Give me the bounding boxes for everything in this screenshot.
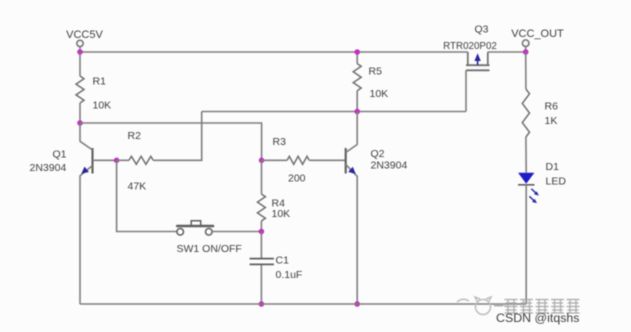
wire Q1 emitter down to bottom rail [79, 176, 81, 305]
node SW1/R4/C1 junction [259, 229, 265, 235]
svg-text:C1: C1 [276, 255, 290, 267]
svg-text:2N3904: 2N3904 [30, 162, 67, 174]
resistor R6 [522, 52, 558, 173]
svg-text:R3: R3 [273, 136, 287, 148]
svg-text:RTR020P02: RTR020P02 [443, 41, 497, 52]
svg-text:VCC5V: VCC5V [66, 29, 103, 41]
watermark logo [457, 297, 506, 315]
svg-text:LED: LED [546, 176, 567, 188]
wire Q3 gate lead [465, 70, 467, 111]
wire Q2 collector up to mid rail [356, 112, 358, 145]
wire Q2 emitter down to bottom rail [356, 176, 358, 304]
mosfet Q3 [443, 23, 497, 70]
node Q2 emitter junction on bottom rail [354, 301, 360, 307]
svg-text:R2: R2 [128, 130, 142, 142]
node VCC5V junction [77, 49, 83, 55]
capacitor C1 [250, 232, 303, 305]
wire Q1 collector up [79, 123, 81, 142]
resistor R5 [353, 52, 388, 112]
svg-text:200: 200 [288, 172, 306, 184]
transistor Q1 [30, 141, 93, 176]
wire Q3 drain to VCC_OUT [488, 51, 526, 53]
diode D1 LED [518, 161, 566, 203]
wire SW1 left riser from Q1 base node [117, 160, 178, 231]
svg-text:Q3: Q3 [474, 23, 488, 35]
svg-text:0.1uF: 0.1uF [276, 269, 303, 281]
transistor Q2 [346, 145, 408, 177]
wire bottom rail [80, 303, 526, 305]
svg-text:10K: 10K [93, 100, 112, 112]
power port VCC5V [66, 29, 103, 52]
svg-text:CSDN @itqshs: CSDN @itqshs [496, 311, 580, 325]
resistor R1 [76, 52, 111, 123]
node R3/R4 junction [259, 158, 265, 164]
wire R1 bottom to R3/R4 node [80, 123, 262, 160]
svg-text:R1: R1 [93, 76, 107, 88]
svg-text:R6: R6 [545, 100, 559, 112]
wire LED cathode down to bottom rail [525, 185, 527, 304]
node R5 bottom junction [354, 109, 360, 115]
node VCC_OUT junction [523, 49, 529, 55]
watermark text 硬件攻城狮 [494, 300, 580, 314]
wire mid rail (Q3 gate net) [202, 111, 466, 113]
svg-text:10K: 10K [272, 208, 291, 220]
svg-text:47K: 47K [128, 180, 147, 192]
svg-text:10K: 10K [370, 88, 389, 100]
wire top rail VCC5V to Q3 source [80, 51, 468, 53]
resistor R2 [117, 130, 154, 193]
svg-text:R5: R5 [369, 65, 383, 77]
svg-text:1K: 1K [545, 115, 558, 127]
node C1 bottom junction [259, 301, 265, 307]
svg-text:SW1 ON/OFF: SW1 ON/OFF [177, 243, 242, 255]
node R1 bottom junction [77, 120, 83, 126]
wire SW1 right to R4/C1 node [212, 231, 261, 233]
resistor R4 [257, 160, 290, 231]
svg-text:D1: D1 [546, 161, 560, 173]
svg-text:Q1: Q1 [53, 149, 67, 161]
resistor R3 [262, 136, 346, 184]
node Q1 base junction [114, 158, 120, 164]
power port VCC_OUT [511, 28, 564, 52]
wire R2 right to mid rail [153, 112, 202, 161]
svg-text:VCC_OUT: VCC_OUT [511, 28, 564, 40]
wire Q1 base to node [93, 159, 117, 161]
node R5 top junction [354, 49, 360, 55]
switch SW1 [177, 221, 242, 256]
svg-text:2N3904: 2N3904 [371, 159, 408, 171]
